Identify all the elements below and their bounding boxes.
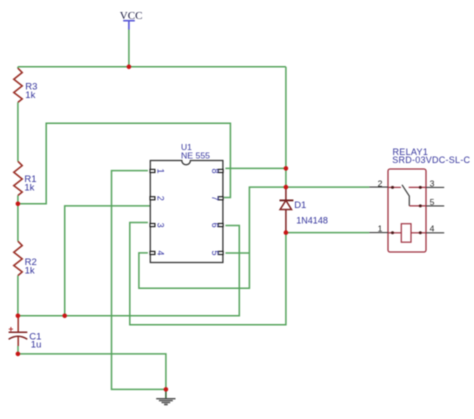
svg-text:3: 3 <box>156 223 166 228</box>
resistor R3 <box>14 68 38 102</box>
wire pin8 to rail drop <box>225 167 286 169</box>
power symbol VCC T-bar <box>123 21 135 30</box>
svg-text:1k: 1k <box>25 266 35 277</box>
wire left chain top (rail to R3) <box>17 67 19 69</box>
node junction diode bottom <box>284 230 289 235</box>
wire pin1 ground run <box>112 171 166 390</box>
wire diode top to relay pin2 <box>286 186 370 188</box>
svg-text:5: 5 <box>430 197 435 207</box>
relay coil lead left <box>388 232 401 234</box>
svg-text:1: 1 <box>378 224 383 234</box>
relay switch armature <box>402 185 409 206</box>
relay pin line 4 <box>426 232 444 234</box>
relay pin line 5 <box>426 205 444 207</box>
wire pin5 control <box>225 252 249 254</box>
pin pad 8 <box>218 169 223 172</box>
svg-text:2: 2 <box>156 196 166 201</box>
svg-text:8: 8 <box>210 168 220 173</box>
relay switch NC row to pin5 <box>409 205 426 207</box>
resistor R1 <box>14 161 37 195</box>
node junction rail-pin8 <box>284 166 289 171</box>
relay switch NO row to pin3 <box>409 186 426 188</box>
relay coil lead right <box>411 232 426 234</box>
svg-text:D1: D1 <box>294 200 306 211</box>
wire VCC to pin4 reset <box>139 187 286 288</box>
svg-text:5: 5 <box>210 250 220 255</box>
ground symbol <box>156 389 175 405</box>
node junction trigger column <box>62 314 67 319</box>
node junction VCC rail <box>127 65 132 70</box>
relay coil contact dot left <box>391 231 394 234</box>
node junction cap top left <box>16 314 21 319</box>
wire pin2 trigger to cap node <box>65 206 150 316</box>
node junction cap bottom <box>16 352 21 357</box>
relay pin line 2 <box>369 186 388 188</box>
diode D1 <box>280 187 328 233</box>
relay switch contact dot common <box>391 186 394 189</box>
wire R1R2 junction to pin7 (discharge) <box>18 123 231 204</box>
wire VCC stem <box>128 30 130 67</box>
wire C1 bottom to ground <box>18 354 166 390</box>
svg-text:3: 3 <box>430 178 435 188</box>
relay coil contact dot right <box>419 231 422 234</box>
wire junction to R2 <box>17 204 19 241</box>
capacitor C1 <box>9 316 42 354</box>
pin pad 2 <box>150 197 155 200</box>
wire top VCC rail <box>18 66 286 68</box>
relay pin line 1 <box>369 232 388 234</box>
relay body <box>388 169 426 252</box>
svg-text:NE 555: NE 555 <box>181 151 210 161</box>
pin pad 5 <box>218 251 223 254</box>
node junction ground <box>164 387 169 392</box>
node junction R1-R2 <box>16 202 21 207</box>
wire diode bottom to relay pin1 <box>286 232 370 234</box>
relay switch contact dot pin5 <box>419 204 422 207</box>
svg-text:4: 4 <box>156 250 166 255</box>
pin pad 7 <box>218 197 223 200</box>
relay coil <box>401 224 411 243</box>
wire R3 to R1 <box>17 102 19 161</box>
op-amp U1 555 timer body <box>150 142 223 263</box>
svg-text:1N4148: 1N4148 <box>296 215 328 225</box>
relay switch common lead <box>388 186 401 188</box>
wire R1 to junction <box>17 196 19 204</box>
pin pad 6 <box>218 224 223 227</box>
wire pin6 threshold run to cap node <box>18 226 239 316</box>
svg-text:1k: 1k <box>25 90 35 101</box>
svg-text:1k: 1k <box>24 183 34 194</box>
pin pad 4 <box>150 251 155 254</box>
svg-text:SRD-03VDC-SL-C: SRD-03VDC-SL-C <box>392 155 470 165</box>
wire pin3 output to relay coil <box>130 223 286 325</box>
node junction diode top <box>284 185 289 190</box>
pin pad 3 <box>150 224 155 227</box>
relay switch contact dot pin3 <box>419 186 422 189</box>
svg-text:1u: 1u <box>31 339 42 350</box>
svg-text:7: 7 <box>210 196 220 201</box>
svg-text:2: 2 <box>378 178 383 188</box>
relay pin line 3 <box>426 186 444 188</box>
wire rail right drop to pin8/diode column <box>285 67 287 187</box>
resistor R2 <box>14 241 37 276</box>
svg-text:6: 6 <box>210 223 220 228</box>
wire R2 to cap node <box>17 276 19 316</box>
pin pad 1 <box>150 169 155 172</box>
svg-text:1: 1 <box>156 168 166 173</box>
svg-text:4: 4 <box>430 224 435 234</box>
